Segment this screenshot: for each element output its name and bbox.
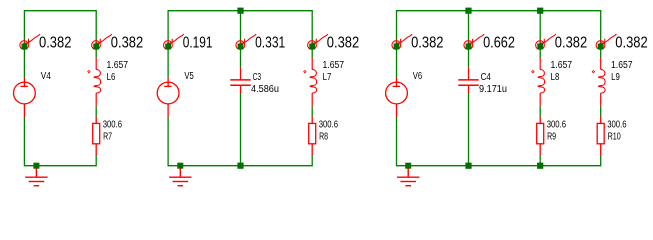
voltage probe node 1 <box>20 34 40 49</box>
svg-text:300.6: 300.6 <box>607 120 627 131</box>
wire L7 branch upper <box>311 10 313 58</box>
svg-text:R9: R9 <box>547 131 556 142</box>
polarity dot of L8 <box>532 70 534 72</box>
wire below R9 <box>539 156 541 166</box>
wire top bus circuit 2 <box>168 10 312 12</box>
svg-text:1.657: 1.657 <box>107 60 129 71</box>
voltage source V6 <box>386 78 408 117</box>
wire V6 branch lower <box>396 117 398 166</box>
wire V6 branch upper <box>396 10 398 78</box>
voltage source V5 <box>157 78 179 117</box>
wire C3 branch lower <box>240 94 242 166</box>
wire below R8 <box>311 156 313 166</box>
svg-text:R10: R10 <box>608 131 622 142</box>
svg-text:C4: C4 <box>481 72 492 83</box>
svg-text:C3: C3 <box>253 72 262 83</box>
wire below R10 <box>600 156 602 166</box>
wire between L8 and R9 <box>539 106 541 116</box>
inductor L6 <box>94 58 101 106</box>
svg-text:1.657: 1.657 <box>611 60 633 71</box>
svg-text:4.586u: 4.586u <box>251 84 279 95</box>
ground <box>397 168 419 185</box>
voltage probe node 2 <box>92 34 112 49</box>
wire L8 branch upper <box>539 11 541 58</box>
svg-text:L8: L8 <box>551 72 560 83</box>
svg-text:0.382: 0.382 <box>555 35 587 52</box>
ground <box>25 168 47 185</box>
resistor R7 <box>93 117 100 157</box>
svg-text:0.382: 0.382 <box>411 35 443 52</box>
wire bottom bus circuit 2 <box>168 165 312 167</box>
wire V5 branch upper <box>167 10 169 78</box>
wire V5 branch lower <box>167 117 169 166</box>
polarity dot of L6 <box>88 70 90 72</box>
voltage probe node 9 <box>596 34 616 49</box>
svg-text:1.657: 1.657 <box>323 60 345 71</box>
wire bottom bus circuit 1 <box>24 165 96 167</box>
wire C4 branch upper <box>468 11 470 67</box>
junction bottom of L8 branch <box>537 163 543 169</box>
junction top of C4 branch <box>465 8 471 14</box>
inductor L9 <box>598 58 605 106</box>
svg-text:L7: L7 <box>323 72 332 83</box>
junction top of L8 branch <box>537 8 543 14</box>
svg-text:0.382: 0.382 <box>111 35 143 52</box>
wire between L6 and R7 <box>95 106 97 116</box>
wire between L7 and R8 <box>311 106 313 116</box>
resistor R8 <box>309 117 316 157</box>
voltage probe node 7 <box>464 34 484 49</box>
svg-text:0.382: 0.382 <box>615 35 647 52</box>
voltage probe node 6 <box>392 34 412 49</box>
junction bottom of C4 branch <box>465 163 471 169</box>
wire C3 branch upper <box>240 11 242 67</box>
inductor L8 <box>538 58 545 106</box>
polarity dot of L9 <box>592 70 594 72</box>
voltage probe node 8 <box>536 34 556 49</box>
wire L9 branch upper <box>600 10 602 58</box>
voltage probe node 4 <box>236 34 256 49</box>
svg-text:0.662: 0.662 <box>483 35 515 52</box>
svg-text:300.6: 300.6 <box>319 120 339 131</box>
svg-text:9.171u: 9.171u <box>479 84 507 95</box>
svg-text:300.6: 300.6 <box>103 120 123 131</box>
wire left branch upper (node V4+) <box>23 10 25 78</box>
svg-text:L9: L9 <box>611 72 620 83</box>
polarity dot of L7 <box>304 70 306 72</box>
wire top bus circuit 3 <box>397 10 601 12</box>
svg-text:0.191: 0.191 <box>183 35 213 52</box>
svg-text:R7: R7 <box>103 131 112 142</box>
capacitor C3 <box>230 67 250 94</box>
resistor R10 <box>597 117 604 157</box>
svg-text:0.331: 0.331 <box>255 35 285 52</box>
wire left branch lower <box>23 117 25 166</box>
svg-text:1.657: 1.657 <box>551 60 573 71</box>
ground <box>169 168 191 185</box>
wire between L9 and R10 <box>600 106 602 116</box>
svg-text:0.382: 0.382 <box>327 35 359 52</box>
svg-text:V5: V5 <box>184 71 194 82</box>
wire bottom bus circuit 3 <box>397 165 601 167</box>
voltage source V4 <box>14 78 36 117</box>
inductor L7 <box>310 58 317 106</box>
junction bottom of C3 branch <box>237 163 243 169</box>
ground junction <box>33 163 39 169</box>
voltage probe node 5 <box>308 34 328 49</box>
svg-text:V6: V6 <box>413 71 423 82</box>
svg-text:R8: R8 <box>319 131 328 142</box>
svg-text:L6: L6 <box>107 72 116 83</box>
voltage probe node 3 <box>164 34 184 49</box>
junction top of C3 branch <box>237 8 243 14</box>
wire C4 branch lower <box>468 94 470 166</box>
svg-text:0.382: 0.382 <box>39 35 71 52</box>
svg-text:300.6: 300.6 <box>547 120 567 131</box>
ground junction <box>177 163 183 169</box>
wire top bus circuit 1 <box>24 10 96 12</box>
capacitor C4 <box>458 67 478 94</box>
svg-text:V4: V4 <box>41 71 52 82</box>
wire below R7 <box>95 156 97 166</box>
ground junction <box>405 163 411 169</box>
wire right branch upper <box>95 10 97 58</box>
resistor R9 <box>537 117 544 157</box>
